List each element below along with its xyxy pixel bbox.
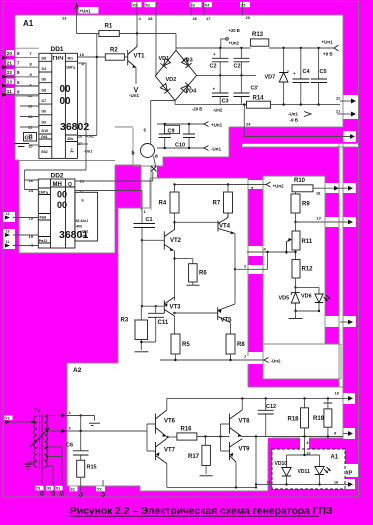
svg-text:26-42п1: 26-42п1 (76, 219, 89, 223)
svg-text:MH: MH (53, 182, 62, 188)
svg-text:+Uп1: +Uп1 (322, 40, 334, 45)
svg-text:D8: D8 (42, 57, 47, 61)
DD2 feedback loop wires (24, 170, 86, 190)
+Un2 rail node 5 (173, 182, 284, 191)
svg-text:24: 24 (246, 122, 251, 127)
wire +Un1 to top frame with node 23 (62, 2, 99, 34)
contact node 8 input left (47, 427, 147, 434)
node 8 wire into dashed box (305, 437, 311, 456)
resistor R1 (77, 24, 177, 37)
resistor R17 with ground (188, 437, 213, 476)
svg-text:R12: R12 (302, 267, 314, 273)
svg-text:D6: D6 (42, 110, 47, 114)
terminal circle 2 (96, 480, 105, 496)
svg-text:R1: R1 (105, 24, 113, 30)
wire vertical pin28 feed (96, 34, 98, 136)
DD2 output wire pin17 to C1 (75, 191, 142, 224)
svg-text:36802: 36802 (60, 121, 89, 133)
resistor R6 with ground (173, 257, 207, 285)
transistor VT9 (230, 439, 251, 488)
node 10 top rail (167, 391, 343, 400)
svg-text:VD3: VD3 (182, 58, 193, 64)
svg-text:R19: R19 (313, 416, 325, 422)
transistor VT7 (156, 439, 176, 488)
resistor R9 (291, 194, 310, 222)
resistor R4 (159, 185, 180, 223)
svg-text:+20 В: +20 В (229, 28, 240, 33)
resistor R8 (226, 334, 245, 360)
svg-text:1МГц: 1МГц (66, 66, 76, 70)
svg-text:+Uп1: +Uп1 (80, 9, 92, 14)
transistor VT5 (218, 269, 235, 334)
svg-text:+: + (293, 71, 296, 76)
svg-text:20: 20 (246, 15, 251, 20)
wire node 28 to top frame (148, 2, 156, 76)
A2 bottom rail (167, 484, 257, 488)
capacitor C3 (left) (212, 75, 229, 104)
svg-text:⊥: ⊥ (70, 147, 75, 154)
transistor VT4 (218, 213, 235, 269)
svg-text:a: a (155, 154, 158, 160)
white region: A2 block (67, 363, 248, 486)
svg-text:XP: XP (346, 471, 353, 477)
svg-text:R14: R14 (253, 96, 265, 102)
transistor VT8 (230, 398, 251, 437)
capacitor C5 (311, 48, 327, 105)
transistor VT1 (128, 44, 145, 98)
svg-text:C2: C2 (210, 64, 217, 70)
contact 21 at right edge (336, 110, 356, 117)
svg-text:00: 00 (60, 96, 72, 107)
svg-text:18: 18 (334, 481, 338, 485)
svg-text:13: 13 (317, 217, 321, 221)
white region: right lower contact notches (343, 393, 355, 404)
capacitor C2 (right) (234, 48, 250, 75)
capacitor C3' (right) (234, 75, 259, 104)
svg-text:+: + (213, 87, 216, 92)
svg-text:93: 93 (47, 487, 51, 491)
dashed box A1 (272, 449, 345, 489)
svg-text:C10: C10 (175, 143, 185, 149)
svg-text:-Uп1: -Uп1 (80, 234, 88, 238)
wire node4-node8 vertical (80, 416, 82, 433)
contact node 10 right edge (343, 396, 353, 401)
svg-text:Pв8: Pв8 (40, 216, 47, 220)
svg-text:R2: R2 (110, 48, 118, 54)
svg-text:+9 В: +9 В (323, 52, 333, 57)
svg-text:VD4: VD4 (186, 89, 198, 95)
wire C1 to VT2 base (141, 239, 165, 306)
svg-text:17: 17 (267, 481, 271, 485)
svg-text:+Uп1: +Uп1 (80, 230, 88, 234)
white region: VD5/VD6 column (263, 176, 325, 344)
resistor R12 (292, 259, 313, 287)
base fork VT8/VT9 (221, 424, 230, 451)
svg-text:R18: R18 (288, 417, 300, 423)
svg-text:24: 24 (29, 188, 34, 193)
svg-text:C4: C4 (303, 69, 311, 75)
svg-text:-Uп1: -Uп1 (211, 147, 221, 152)
svg-text:C1: C1 (146, 217, 153, 223)
svg-text:18: 18 (29, 216, 34, 221)
node 1 label (144, 209, 147, 214)
trimmer resistor R11 (286, 222, 312, 254)
-20V rail (175, 103, 340, 112)
block label A1 (23, 19, 34, 28)
zener diode VD5 (279, 286, 320, 311)
white region: amplifier main (118, 208, 248, 363)
svg-text:4: 4 (69, 411, 71, 415)
capacitor C9 (157, 123, 204, 148)
svg-text:-Uп1: -Uп1 (84, 149, 94, 154)
svg-text:R13: R13 (252, 32, 264, 38)
white region: switch area (133, 126, 163, 166)
svg-text:Х4: Х4 (205, 3, 209, 7)
VT3 base node and C11 top node (141, 305, 165, 307)
white region: node7 cut (248, 352, 267, 364)
svg-text:Х5: Х5 (241, 3, 245, 7)
svg-text:C9: C9 (168, 128, 175, 134)
svg-text:21: 21 (7, 60, 13, 65)
transistor VT2 (164, 222, 181, 251)
svg-text:R9: R9 (302, 202, 310, 208)
wire VT2 emitter chain (174, 251, 176, 301)
node 4 wire (247, 247, 297, 260)
svg-text:-20 В: -20 В (192, 107, 202, 112)
-Un2 bottom rail node 7 (160, 354, 281, 364)
resistor R13 (250, 32, 338, 57)
svg-text:+Uп2: +Uп2 (229, 41, 240, 46)
node R1-VT1 junction (136, 32, 138, 43)
svg-text:DD1: DD1 (51, 46, 64, 53)
svg-text:12: 12 (6, 212, 10, 216)
white region: dashed A1 box interior (272, 449, 345, 489)
resistor R14 (247, 96, 271, 109)
svg-text:VD5: VD5 (279, 296, 290, 302)
node 2 wire (234, 252, 268, 270)
svg-text:C11: C11 (158, 320, 169, 326)
capacitor C12 (258, 398, 276, 436)
transistor VT6 (156, 398, 176, 436)
svg-text:C12: C12 (266, 404, 276, 410)
node 13 wire and contact (294, 217, 353, 225)
resistor R2 (78, 48, 128, 61)
capacitor C1 (134, 217, 156, 240)
svg-text:+: + (213, 52, 216, 57)
resistor R18 (288, 398, 309, 436)
svg-text:GB: GB (25, 136, 33, 142)
node VT2 collector / VT4 base (173, 221, 218, 223)
VT3/VT5 base wire (173, 312, 217, 314)
+20V rail (176, 28, 250, 49)
svg-text:VT3: VT3 (170, 305, 182, 311)
svg-text:Gb1: Gb1 (41, 135, 48, 139)
white region: amplifier top strip (150, 178, 248, 210)
wire node9 down-left to box bottom (255, 437, 257, 486)
svg-text:C3: C3 (222, 99, 229, 105)
white region: channel to amplifier (141, 166, 151, 210)
wire node 4 to top frame (137, 2, 142, 34)
svg-text:D7: D7 (42, 99, 47, 103)
LED VD6 (301, 287, 330, 311)
contact at right edge near VD row (340, 320, 353, 325)
node 24 wire and right channel contact (243, 103, 355, 138)
zener diode VD7 (265, 48, 289, 105)
svg-text:01: 01 (56, 487, 60, 491)
transformer primary ground (24, 462, 38, 469)
svg-text:22: 22 (7, 70, 13, 75)
transformer TV (30, 409, 49, 471)
resistor R15 (70, 460, 97, 496)
transformer secondary taps (33, 415, 62, 493)
svg-text:40п: 40п (76, 225, 82, 229)
svg-text:21: 21 (336, 110, 340, 114)
svg-text:R3: R3 (121, 318, 129, 324)
svg-text:D6: D6 (42, 78, 47, 82)
svg-text:VT6: VT6 (164, 419, 176, 425)
svg-text:18: 18 (316, 192, 320, 196)
svg-text:R8: R8 (237, 342, 245, 348)
svg-text:VD7: VD7 (265, 75, 276, 81)
svg-text:Рисунок 2.2 – Электрическая сх: Рисунок 2.2 – Электрическая схема генера… (70, 506, 332, 517)
wire node 20 to top frame (242, 2, 250, 20)
svg-text:23: 23 (62, 16, 67, 21)
svg-text:+Uп2: +Uп2 (273, 184, 285, 189)
svg-text:C5: C5 (320, 69, 327, 75)
white region: node8 channel (300, 438, 309, 449)
ground on node 4 wire (80, 414, 101, 425)
svg-text:A2: A2 (73, 367, 82, 374)
svg-text:11: 11 (7, 89, 12, 94)
contact 22 at right edge (336, 97, 356, 104)
resistor R5 (171, 334, 190, 360)
svg-text:17: 17 (206, 16, 211, 21)
svg-text:20: 20 (7, 51, 13, 56)
svg-text:-9 В: -9 В (290, 118, 299, 123)
IC DD1 (36802) (28, 46, 94, 158)
svg-text:+Uп1: +Uп1 (211, 123, 223, 128)
white region: top main block (15, 15, 343, 127)
-Un1 tap arrow (204, 146, 221, 152)
VD5/VD6 bottom rail with ground (289, 310, 321, 319)
contact XP label (346, 471, 353, 477)
svg-text:VT4: VT4 (219, 224, 231, 230)
svg-text:Rп: Rп (68, 56, 74, 61)
battery GB (14, 133, 39, 147)
svg-text:VT7: VT7 (164, 448, 176, 454)
DD1 pin10 wire handled with R2; pin27 -Un1 stub (78, 143, 89, 145)
DD1 input wires with left contacts (2, 48, 39, 127)
white region: node5 cut (248, 180, 264, 189)
svg-text:Х2: Х2 (146, 3, 150, 7)
block label A2 (73, 367, 82, 374)
svg-text:22: 22 (336, 97, 340, 101)
svg-text:VD10: VD10 (275, 461, 288, 467)
white region: right contact notches (325, 183, 356, 193)
transformer input contact (5, 416, 38, 425)
svg-text:TV: TV (34, 409, 41, 415)
svg-text:У2: У2 (5, 416, 9, 420)
wire node 17 to top frame (204, 2, 211, 21)
IC DD2 (36801) (29, 173, 98, 249)
svg-text:13: 13 (7, 79, 13, 84)
svg-text:A1: A1 (23, 19, 34, 28)
svg-text:-Uп1: -Uп1 (129, 93, 139, 98)
svg-text:A1: A1 (331, 455, 339, 461)
svg-text:00: 00 (57, 190, 67, 200)
svg-text:c: c (144, 128, 147, 134)
LED VD11 (298, 467, 331, 485)
svg-text:10: 10 (335, 391, 340, 396)
svg-text:VD2: VD2 (166, 77, 177, 83)
bottom wire in dashed box (256, 481, 353, 487)
svg-text:8: 8 (307, 441, 309, 445)
capacitor C4 (293, 48, 311, 105)
svg-text:R16: R16 (181, 427, 193, 433)
svg-text:R4: R4 (159, 201, 167, 207)
svg-text:R11: R11 (302, 239, 313, 245)
white region: DD2 left contact notches (3, 212, 15, 222)
DD1 pin4 wire down to DD2 loop (78, 63, 97, 170)
svg-text:VD11: VD11 (298, 469, 310, 475)
contact node18 right edge (339, 186, 353, 191)
contact node 9 right edge (343, 431, 353, 436)
svg-text:C2: C2 (234, 64, 241, 70)
white region: right channel gap (242, 144, 358, 147)
transistor VT3 (164, 297, 181, 334)
svg-text:-Uп2: -Uп2 (213, 108, 223, 113)
svg-text:26: 26 (193, 16, 198, 21)
emitter node and resistor R16 (166, 427, 229, 441)
svg-text:13: 13 (6, 230, 10, 234)
wire to VD10/VD11 tops (287, 454, 320, 468)
svg-text:11: 11 (6, 240, 10, 244)
capacitor C2 (left) (210, 48, 229, 75)
diode VD10 (275, 461, 292, 484)
node 9 rail (242, 431, 344, 438)
base fork VT6/VT7 (147, 424, 156, 451)
capacitor C11 (148, 306, 169, 342)
svg-text:28: 28 (148, 16, 153, 21)
svg-text:Х1: Х1 (133, 3, 137, 7)
svg-text:16: 16 (29, 178, 34, 183)
rotary switch SA b-c-a (132, 128, 159, 172)
resistor R10 (292, 178, 339, 196)
svg-text:D9: D9 (42, 120, 47, 124)
svg-text:R6: R6 (199, 271, 207, 277)
svg-text:-Uп1: -Uп1 (288, 112, 298, 117)
white region: DD1/DD2 left column (15, 126, 115, 160)
svg-text:VD6: VD6 (301, 294, 312, 300)
svg-text:R5: R5 (182, 342, 190, 348)
svg-text:00: 00 (57, 200, 67, 210)
resistor R7 (213, 185, 233, 219)
diode bridge VD1 VD2 VD3 VD4 (151, 34, 197, 144)
white region: thin right strip (339, 143, 343, 387)
svg-text:10: 10 (80, 52, 85, 57)
svg-text:VT8: VT8 (239, 419, 251, 425)
white region: contacts 22/21 notch (343, 95, 358, 119)
svg-text:У3: У3 (36, 487, 40, 491)
title caption (70, 506, 332, 517)
svg-text:40п: 40п (67, 137, 73, 141)
svg-text:Gb2: Gb2 (41, 150, 48, 154)
svg-text:Q: Q (68, 182, 72, 188)
-9V tap with labels (288, 112, 311, 123)
svg-text:VT2: VT2 (170, 238, 182, 244)
capacitor C10 (157, 123, 204, 149)
svg-text:VT1: VT1 (134, 54, 146, 60)
transformer bottom leads to frame (35, 470, 64, 495)
white region: C9/C10 area (163, 126, 229, 157)
svg-text:Pв12: Pв12 (39, 239, 48, 243)
svg-text:ГНЧ: ГНЧ (53, 56, 64, 62)
svg-text:12: 12 (28, 93, 33, 98)
white region: node4/node2 cuts (248, 246, 264, 256)
mid 0V rail (197, 74, 256, 76)
connector chips on top frame (132, 2, 251, 7)
svg-text:15: 15 (28, 144, 33, 149)
wire node 26 to top frame (191, 2, 198, 21)
DD2 input wires with left contacts 12/13/11 (5, 212, 38, 248)
svg-text:VD1: VD1 (159, 56, 170, 62)
capacitor C6 (66, 431, 89, 460)
svg-text:У2: У2 (97, 487, 102, 492)
resistor R3 with ground (121, 306, 156, 352)
svg-text:R7: R7 (213, 201, 221, 207)
svg-text:R15: R15 (87, 465, 97, 471)
svg-text:b: b (132, 151, 135, 157)
svg-text:17: 17 (80, 189, 85, 194)
svg-text:61: 61 (71, 487, 76, 492)
svg-text:DD2: DD2 (51, 173, 64, 180)
contact node 4 input left (47, 411, 81, 418)
svg-text:C3’: C3’ (251, 86, 259, 92)
svg-text:-Uп2: -Uп2 (271, 359, 281, 364)
+Un1 tap arrow (204, 122, 223, 128)
svg-text:C6: C6 (66, 443, 73, 449)
svg-text:00: 00 (60, 84, 72, 95)
svg-text:8: 8 (69, 427, 71, 431)
resistor R19 (313, 398, 332, 436)
svg-text:VT9: VT9 (239, 447, 251, 453)
svg-text:R17: R17 (188, 454, 200, 460)
DD2 output wire pin13 to switch (75, 172, 153, 182)
svg-text:R10: R10 (294, 178, 306, 184)
svg-text:D10: D10 (42, 129, 49, 133)
svg-text:D4: D4 (42, 67, 47, 71)
svg-text:D8: D8 (42, 88, 47, 92)
svg-text:1МГц: 1МГц (39, 191, 49, 195)
